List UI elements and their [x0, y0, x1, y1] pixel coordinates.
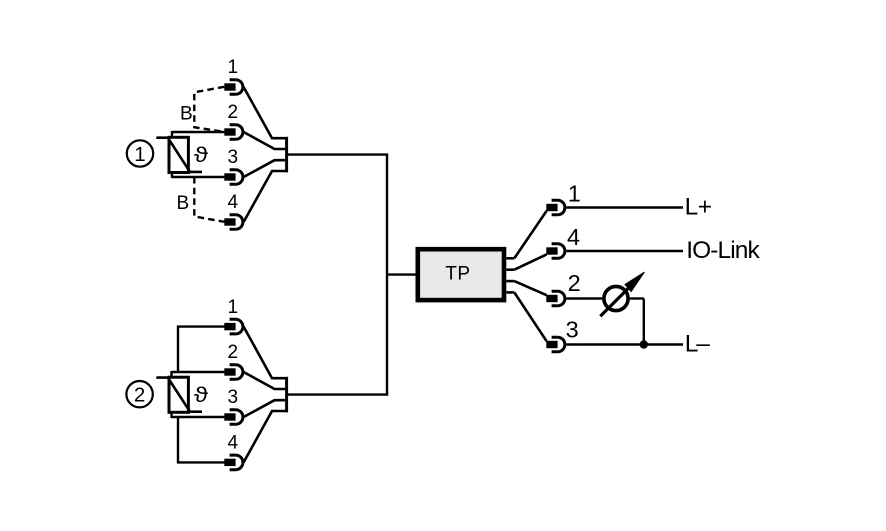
wire stub RT1 bottom	[171, 173, 173, 179]
dashed bridge B pin3-pin4	[194, 177, 224, 222]
svg-text:TP: TP	[445, 264, 470, 285]
wire stub RT2 bottom	[170, 412, 172, 418]
merge funnel (sensor 1)	[244, 87, 288, 222]
wire TP stub 4	[506, 291, 514, 294]
svg-text:1: 1	[228, 57, 239, 78]
wire stub RT1 top	[171, 131, 173, 137]
svg-text:2: 2	[228, 342, 239, 363]
wire bus to TP	[387, 273, 417, 275]
merge funnel (sensor 2)	[244, 327, 288, 463]
thermistor RT2	[156, 377, 202, 412]
wire RT1 bottom to pin 3	[172, 176, 225, 178]
socket J1 pin 3	[224, 170, 243, 185]
wire TP to pin 3 (right)	[514, 292, 546, 341]
svg-text:3: 3	[228, 147, 239, 168]
wire TP stub 3	[506, 280, 514, 283]
sensor circle 2	[126, 381, 152, 407]
wire TP to pin 2 (right)	[514, 281, 546, 295]
wire TP to pin 4 (right)	[514, 254, 546, 269]
svg-text:4: 4	[228, 192, 239, 213]
sensor circle 1	[127, 140, 153, 166]
TP box U1	[418, 249, 504, 300]
meter / analog output symbol	[600, 286, 630, 316]
socket J1 pin 2	[224, 125, 243, 140]
wire corner down to L-	[643, 299, 645, 345]
wire IO-Link	[566, 250, 683, 252]
svg-text:3: 3	[228, 387, 239, 408]
svg-text:ϑ: ϑ	[194, 383, 208, 406]
svg-text:L+: L+	[685, 194, 712, 221]
svg-text:2: 2	[228, 102, 239, 123]
wire TP stub 2	[506, 268, 514, 271]
wire RT2 top to pin 2	[172, 371, 225, 373]
socket J1 pin 4	[224, 215, 243, 230]
wire bridge pin3-pin4 (sensor 2)	[178, 417, 225, 462]
wire TP stub 1	[506, 257, 514, 260]
wire funnel 1 output	[287, 153, 388, 155]
wire stub RT2 top	[170, 371, 172, 377]
wire bridge pin1-pin2 (sensor 2)	[178, 327, 225, 372]
dashed bridge B pin1-pin2	[194, 87, 224, 132]
svg-text:B: B	[180, 103, 193, 124]
socket J2 pin 3	[224, 410, 243, 425]
wire L-	[566, 343, 683, 345]
wire pin2 to meter	[566, 297, 602, 299]
wire vertical bus	[386, 155, 388, 395]
wire RT2 bottom to pin 3	[172, 416, 225, 418]
socket out pin 3	[546, 337, 565, 352]
svg-text:4: 4	[228, 433, 239, 454]
svg-text:1: 1	[228, 297, 239, 318]
svg-text:2: 2	[134, 384, 145, 407]
junction dot	[640, 340, 648, 348]
thermistor RT1	[156, 137, 202, 172]
svg-text:L–: L–	[685, 331, 710, 358]
socket J2 pin 4	[224, 455, 243, 470]
svg-text:2: 2	[568, 270, 581, 296]
socket out pin 1	[546, 200, 565, 215]
wire funnel 2 output	[287, 393, 388, 395]
svg-text:1: 1	[568, 181, 581, 207]
wire meter to corner	[630, 297, 644, 299]
socket out pin 4	[546, 244, 565, 259]
socket J1 pin 1	[224, 80, 243, 95]
svg-text:B: B	[177, 193, 190, 214]
socket out pin 2	[546, 291, 565, 306]
socket J2 pin 2	[224, 365, 243, 380]
wire L+	[566, 206, 683, 208]
svg-text:3: 3	[566, 317, 579, 343]
svg-text:4: 4	[567, 224, 580, 250]
svg-text:IO-Link: IO-Link	[686, 237, 760, 264]
svg-text:ϑ: ϑ	[194, 143, 208, 166]
wire TP to pin 1 (right)	[514, 211, 546, 258]
svg-text:1: 1	[134, 143, 145, 166]
wire RT1 top to pin 2	[172, 131, 225, 133]
socket J2 pin 1	[224, 319, 243, 334]
